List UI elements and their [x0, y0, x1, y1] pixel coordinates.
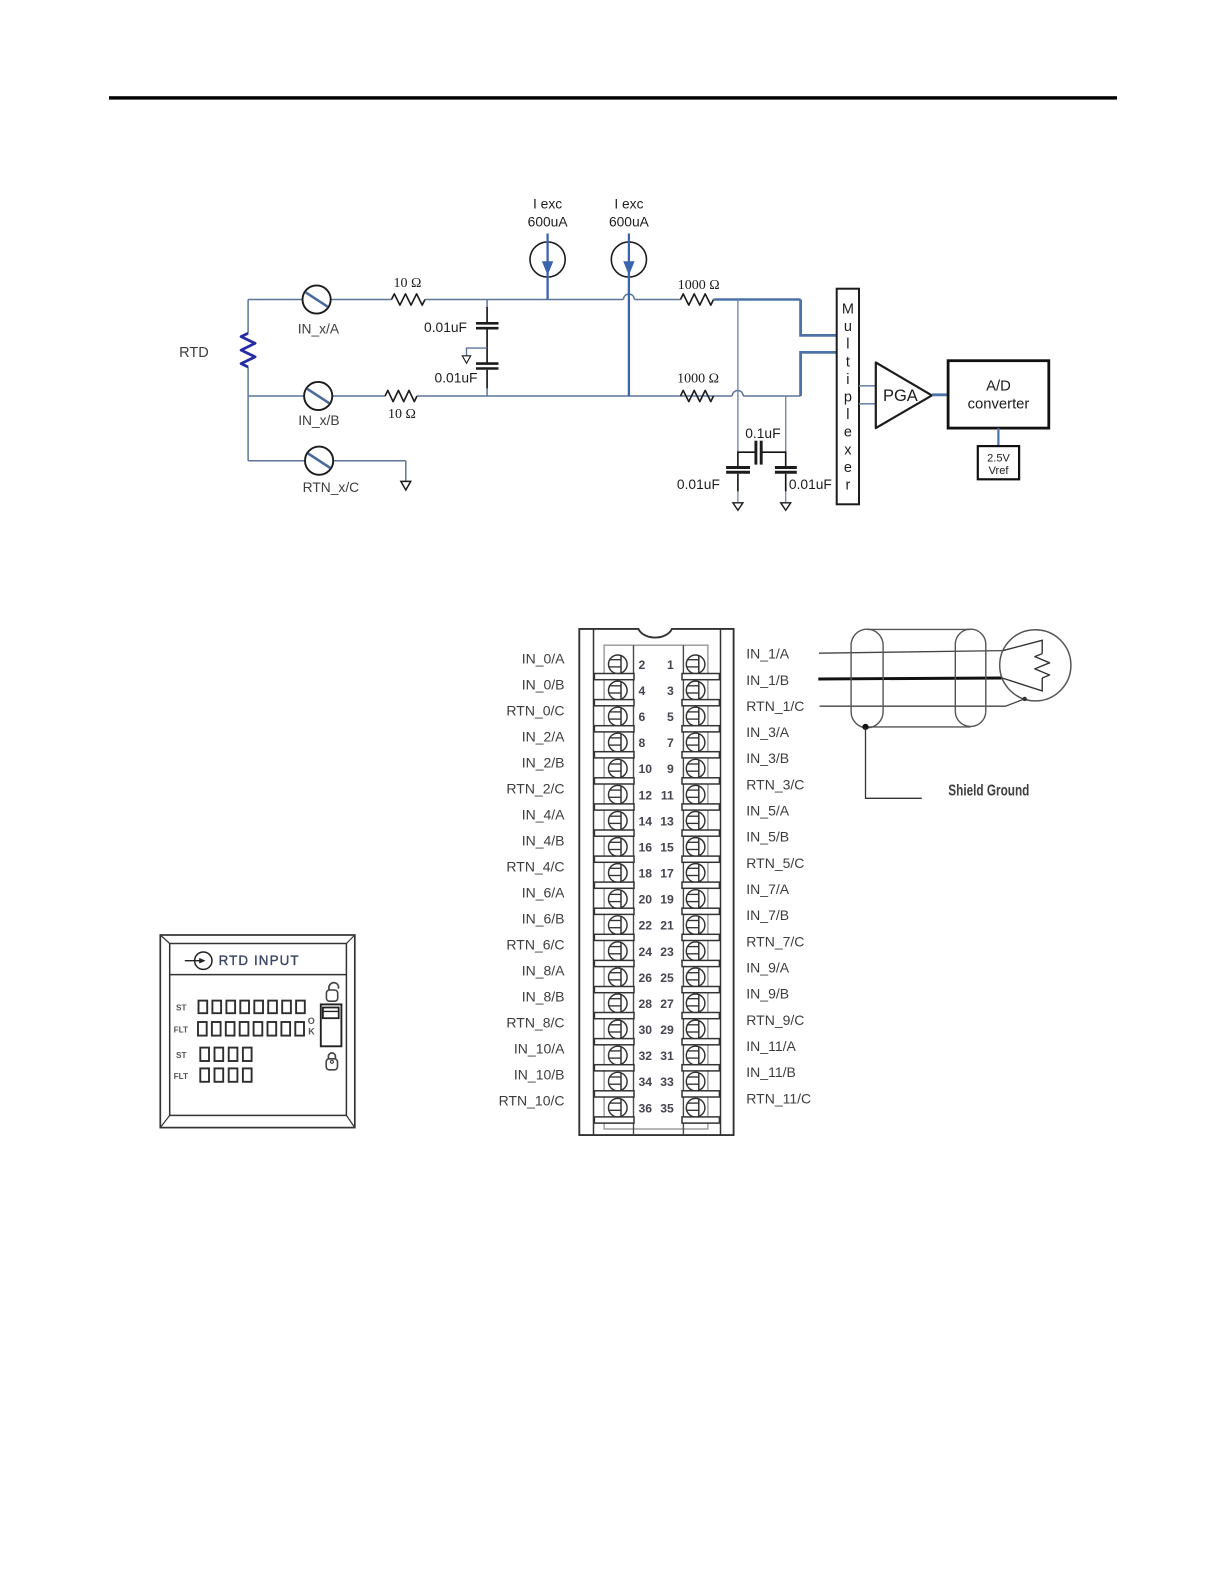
svg-text:29: 29 [660, 1023, 674, 1037]
svg-text:RTN_10/C: RTN_10/C [499, 1093, 565, 1109]
pin number 10 [639, 762, 653, 776]
svg-text:IN_1/B: IN_1/B [746, 672, 789, 688]
svg-text:Shield Ground: Shield Ground [948, 782, 1029, 799]
label ST (row 3) [176, 1051, 186, 1060]
svg-text:RTN_7/C: RTN_7/C [746, 933, 804, 949]
svg-text:ST: ST [176, 1003, 186, 1012]
svg-text:10 Ω: 10 Ω [393, 276, 421, 291]
svg-text:I exc: I exc [533, 197, 562, 212]
svg-text:25: 25 [660, 971, 674, 985]
module key icon [185, 952, 212, 969]
svg-text:IN_6/B: IN_6/B [522, 911, 565, 927]
LED row FLT (channels 0-7) [198, 1022, 304, 1036]
terminal pin 5 [686, 707, 705, 726]
separator bars row 8 [594, 856, 719, 862]
svg-text:IN_2/B: IN_2/B [522, 755, 565, 771]
svg-text:IN_9/B: IN_9/B [746, 986, 789, 1002]
svg-text:0.01uF: 0.01uF [424, 320, 467, 335]
svg-text:3: 3 [667, 684, 674, 698]
ground (left filter cap) [733, 503, 743, 511]
label RTN_6/C [506, 937, 564, 953]
label 0.01uF (lower) [435, 371, 478, 386]
LED row ST (channels 8-11) [200, 1048, 251, 1061]
svg-text:IN_6/A: IN_6/A [522, 885, 565, 901]
module panel outer frame [160, 935, 354, 1128]
terminal pin 25 [686, 968, 705, 987]
wire: top channel into multiplexer [801, 300, 837, 336]
label 0.01uF (right of mux) [789, 477, 832, 492]
label IN_x/B [298, 413, 339, 428]
svg-text:IN_7/A: IN_7/A [746, 881, 789, 897]
svg-text:10: 10 [639, 762, 653, 776]
label IN_x/A [298, 321, 340, 336]
svg-text:RTD: RTD [179, 345, 209, 361]
pin number 22 [639, 919, 653, 933]
terminal pin 30 [609, 1020, 628, 1039]
LED row ST (channels 0-7) [199, 1001, 305, 1014]
svg-text:RTN_1/C: RTN_1/C [746, 698, 804, 714]
svg-text:26: 26 [639, 971, 653, 985]
label I exc 600uA #2 [609, 197, 650, 230]
label IN_6/A [522, 885, 565, 901]
terminal pin 31 [686, 1046, 705, 1065]
pin number 12 [639, 788, 653, 802]
terminal pin 22 [609, 916, 628, 935]
label RTN_10/C [499, 1093, 565, 1109]
pin number 16 [639, 841, 653, 855]
wire IN_1/B (bold) [818, 678, 1002, 679]
svg-text:I exc: I exc [614, 197, 643, 212]
wire: IN_x/B row [248, 391, 801, 397]
svg-text:5: 5 [667, 710, 674, 724]
svg-text:IN_7/B: IN_7/B [746, 907, 789, 923]
svg-text:FLT: FLT [174, 1072, 188, 1081]
separator bars row 6 [594, 804, 719, 810]
svg-text:17: 17 [660, 867, 674, 881]
separator bars row 17 [594, 1091, 719, 1097]
svg-text:RTD INPUT: RTD INPUT [219, 953, 300, 968]
pin number 5 [667, 710, 674, 724]
label RTN_0/C [506, 703, 564, 719]
terminal pin 11 [686, 785, 705, 804]
pin number 13 [660, 814, 674, 828]
svg-text:p: p [844, 390, 852, 406]
wire: mux to PGA (lower) [859, 403, 876, 405]
pin number 2 [639, 658, 646, 672]
current source I exc 600uA #2 [611, 234, 646, 397]
separator bars row 3 [594, 726, 719, 732]
label 1000 ohm (bottom) [677, 372, 719, 387]
wire: filter tap vertical (from IN_x/A) [737, 300, 755, 467]
label RTN_1/C [746, 698, 804, 714]
op-amp PGA [876, 363, 932, 429]
svg-text:IN_9/A: IN_9/A [746, 960, 789, 976]
separator bars row 10 [594, 908, 719, 914]
terminal pin 2 [609, 655, 628, 674]
svg-text:O: O [308, 1016, 315, 1026]
terminal pin 32 [609, 1046, 628, 1065]
svg-text:IN_0/B: IN_0/B [522, 677, 565, 693]
svg-text:IN_3/B: IN_3/B [746, 750, 789, 766]
label Shield Ground [948, 782, 1029, 799]
terminal IN_x/B [304, 382, 332, 410]
label IN_4/A [522, 807, 565, 823]
label FLT (row 2) [174, 1025, 188, 1034]
label IN_4/B [522, 833, 565, 849]
terminal pin 10 [609, 759, 628, 778]
pin number 29 [660, 1023, 674, 1037]
label IN_10/A [514, 1041, 565, 1057]
label 10 ohm (top) [393, 276, 421, 291]
pin number 26 [639, 971, 653, 985]
padlock open (top) [326, 983, 338, 1001]
ground (right filter cap) [781, 503, 791, 511]
svg-text:RTN_0/C: RTN_0/C [506, 703, 564, 719]
svg-text:27: 27 [660, 997, 674, 1011]
separator bars row 16 [594, 1065, 719, 1071]
separator bars row 2 [594, 700, 719, 706]
mode switch [321, 1004, 342, 1046]
terminal pin 8 [609, 733, 628, 752]
svg-text:IN_x/B: IN_x/B [298, 413, 339, 428]
pin number 6 [639, 710, 646, 724]
label RTN_7/C [746, 933, 804, 949]
label I exc 600uA #1 [528, 197, 569, 230]
2.5V Vref [978, 446, 1019, 479]
separator bars row 7 [594, 830, 719, 836]
terminal pin 7 [686, 733, 705, 752]
svg-text:18: 18 [639, 867, 653, 881]
svg-text:600uA: 600uA [609, 215, 650, 230]
separator bars row 14 [594, 1013, 719, 1019]
label IN_7/B [746, 907, 789, 923]
svg-text:23: 23 [660, 945, 674, 959]
svg-text:19: 19 [660, 893, 674, 907]
wire: left vertical bus [247, 300, 249, 461]
pin number 17 [660, 867, 674, 881]
ground (RTN row) [401, 481, 411, 490]
pin number 19 [660, 893, 674, 907]
label IN_10/B [514, 1067, 565, 1083]
svg-text:9: 9 [667, 762, 674, 776]
svg-text:24: 24 [639, 945, 653, 959]
pin number 14 [639, 814, 653, 828]
pin number 20 [639, 893, 653, 907]
resistor 1000 ohm (top) [681, 294, 714, 305]
terminal pin 3 [686, 681, 705, 700]
terminal RTN_x/C [305, 447, 333, 475]
svg-text:IN_x/A: IN_x/A [298, 321, 340, 336]
multiplexer U1 [837, 289, 859, 505]
capacitor 0.1uF [756, 441, 761, 465]
wire IN_1/A [819, 651, 1003, 654]
svg-text:RTN_9/C: RTN_9/C [746, 1012, 804, 1028]
label RTD [179, 345, 209, 361]
svg-text:t: t [846, 354, 850, 370]
resistor RTD [241, 333, 255, 367]
wire: IN_x/A row [248, 294, 680, 300]
svg-text:IN_11/B: IN_11/B [746, 1064, 796, 1080]
label RTN_2/C [506, 781, 564, 797]
label RTN_5/C [746, 855, 804, 871]
separator bars row 1 [594, 674, 719, 680]
label IN_3/A [746, 724, 789, 740]
svg-text:IN_3/A: IN_3/A [746, 724, 789, 740]
svg-text:IN_10/B: IN_10/B [514, 1067, 565, 1083]
separator bars row 13 [594, 987, 719, 993]
pin number 36 [639, 1101, 653, 1115]
label IN_1/A [746, 646, 789, 662]
label IN_0/A [522, 651, 565, 667]
current source I exc 600uA #1 [530, 234, 565, 300]
pin number 4 [639, 684, 646, 698]
svg-text:RTN_4/C: RTN_4/C [506, 859, 564, 875]
terminal pin 19 [686, 890, 705, 909]
label IN_3/B [746, 750, 789, 766]
svg-text:0.1uF: 0.1uF [745, 426, 780, 441]
terminal pin 12 [609, 785, 628, 804]
padlock closed (bottom) [326, 1053, 337, 1070]
pin number 11 [661, 788, 674, 802]
pin number 24 [639, 945, 653, 959]
label RTD INPUT [219, 953, 300, 968]
svg-text:RTN_5/C: RTN_5/C [746, 855, 804, 871]
terminal pin 23 [686, 942, 705, 961]
svg-text:10 Ω: 10 Ω [388, 407, 416, 422]
svg-text:600uA: 600uA [528, 215, 569, 230]
pin number 35 [660, 1101, 674, 1115]
terminal block outline [579, 629, 733, 1135]
svg-text:l: l [846, 337, 849, 353]
cable shield bottom link [866, 726, 971, 728]
svg-text:31: 31 [660, 1049, 674, 1063]
label IN_11/A [746, 1038, 796, 1054]
svg-text:FLT: FLT [174, 1025, 188, 1034]
terminal pin 14 [609, 812, 628, 831]
label IN_6/B [522, 911, 565, 927]
svg-text:RTN_11/C: RTN_11/C [746, 1090, 811, 1106]
terminal pin 36 [609, 1098, 628, 1117]
label IN_5/B [746, 829, 789, 845]
svg-text:A/D: A/D [986, 379, 1011, 395]
svg-text:32: 32 [639, 1049, 653, 1063]
label IN_5/A [746, 803, 789, 819]
pin number 25 [660, 971, 674, 985]
terminal pin 33 [686, 1072, 705, 1091]
label IN_2/A [522, 729, 565, 745]
wire: RTN_x/C row [248, 461, 406, 482]
svg-text:IN_8/A: IN_8/A [522, 963, 565, 979]
pin number 3 [667, 684, 674, 698]
label RTN_x/C [303, 480, 360, 495]
pin number 15 [660, 841, 674, 855]
svg-text:K: K [308, 1027, 315, 1037]
terminal pin 35 [686, 1098, 705, 1117]
header rule [109, 96, 1117, 99]
pin number 9 [667, 762, 674, 776]
pin number 34 [639, 1075, 653, 1089]
svg-text:0.01uF: 0.01uF [677, 477, 720, 492]
label 10 ohm (bottom) [388, 407, 416, 422]
A/D converter [948, 361, 1049, 428]
cable shield loop (right) [955, 629, 986, 726]
pin number 7 [667, 736, 674, 750]
svg-text:36: 36 [639, 1101, 653, 1115]
label IN_7/A [746, 881, 789, 897]
svg-text:1000 Ω: 1000 Ω [677, 372, 719, 387]
terminal block inner frame [604, 645, 708, 1135]
svg-text:i: i [846, 372, 849, 388]
terminal pin 13 [686, 812, 705, 831]
svg-text:34: 34 [639, 1075, 653, 1089]
terminal pin 20 [609, 890, 628, 909]
terminal pin 24 [609, 942, 628, 961]
resistor 1000 ohm (bottom) [681, 390, 714, 401]
pin number 33 [660, 1075, 674, 1089]
terminal pin 18 [609, 864, 628, 883]
svg-text:15: 15 [660, 841, 674, 855]
terminal pin 4 [609, 681, 628, 700]
separator bars row 18 [594, 1117, 719, 1123]
wire: mux to PGA (upper) [859, 385, 876, 387]
svg-text:22: 22 [639, 919, 653, 933]
wire: 1000 ohm to corner (thick) [714, 298, 801, 300]
label IN_8/A [522, 963, 565, 979]
svg-text:16: 16 [639, 841, 653, 855]
svg-text:IN_10/A: IN_10/A [514, 1041, 565, 1057]
module panel inner frame [160, 935, 354, 1128]
svg-text:IN_4/A: IN_4/A [522, 807, 565, 823]
svg-text:e: e [844, 460, 852, 476]
svg-text:RTN_3/C: RTN_3/C [746, 776, 804, 792]
svg-text:IN_0/A: IN_0/A [522, 651, 565, 667]
wire: PGA to A/D [932, 393, 948, 396]
label RTN_9/C [746, 1012, 804, 1028]
svg-text:28: 28 [639, 997, 653, 1011]
svg-text:IN_5/B: IN_5/B [746, 829, 789, 845]
wire: bottom channel into multiplexer [801, 352, 837, 396]
label OK [308, 1016, 315, 1037]
separator bars row 5 [594, 778, 719, 784]
pin number 30 [639, 1023, 653, 1037]
label RTN_11/C [746, 1090, 811, 1106]
svg-text:RTN_2/C: RTN_2/C [506, 781, 564, 797]
label IN_0/B [522, 677, 565, 693]
capacitor 0.01uF (upper, at IN_x/A filter) [476, 300, 499, 363]
svg-text:1000 Ω: 1000 Ω [678, 278, 720, 293]
svg-text:r: r [845, 478, 850, 494]
svg-text:IN_11/A: IN_11/A [746, 1038, 796, 1054]
separator bars row 15 [594, 1039, 719, 1045]
label IN_11/B [746, 1064, 796, 1080]
node: shield ground junction [862, 724, 868, 730]
svg-text:35: 35 [660, 1101, 674, 1115]
svg-text:x: x [844, 442, 852, 458]
LED row FLT (channels 8-11) [200, 1068, 251, 1081]
svg-text:7: 7 [667, 736, 674, 750]
terminal block inner walls [594, 629, 721, 1135]
label RTN_3/C [746, 776, 804, 792]
label IN_9/A [746, 960, 789, 976]
svg-text:20: 20 [639, 893, 653, 907]
label 1000 ohm (top) [678, 278, 720, 293]
svg-text:ST: ST [176, 1051, 186, 1060]
pin number 1 [667, 658, 674, 672]
wire: filter tap vertical (from IN_x/B) [762, 396, 787, 466]
label 0.1uF [745, 426, 780, 441]
label IN_1/B [746, 672, 789, 688]
label IN_9/B [746, 986, 789, 1002]
label FLT (row 4) [174, 1072, 188, 1081]
label IN_2/B [522, 755, 565, 771]
label 0.01uF (upper) [424, 320, 467, 335]
svg-text:RTN_x/C: RTN_x/C [303, 480, 360, 495]
separator bars row 9 [594, 882, 719, 888]
svg-text:12: 12 [639, 788, 653, 802]
terminal pin 29 [686, 1020, 705, 1039]
terminal pin 6 [609, 707, 628, 726]
svg-text:IN_5/A: IN_5/A [746, 803, 789, 819]
separator bars row 12 [594, 960, 719, 966]
svg-text:u: u [844, 319, 852, 335]
label IN_8/B [522, 989, 565, 1005]
label RTN_8/C [506, 1015, 564, 1031]
terminal pin 15 [686, 838, 705, 857]
cable shield top link [867, 628, 971, 630]
svg-text:IN_8/B: IN_8/B [522, 989, 565, 1005]
svg-text:RTN_8/C: RTN_8/C [506, 1015, 564, 1031]
svg-text:21: 21 [660, 919, 674, 933]
svg-text:4: 4 [639, 684, 646, 698]
terminal pin 9 [686, 759, 705, 778]
svg-text:PGA: PGA [883, 387, 918, 405]
svg-text:30: 30 [639, 1023, 653, 1037]
terminal IN_x/A [303, 285, 331, 313]
svg-text:Vref: Vref [989, 465, 1010, 477]
terminal pin 26 [609, 968, 628, 987]
svg-text:13: 13 [660, 814, 674, 828]
svg-text:33: 33 [660, 1075, 674, 1089]
RTD sensor [1000, 630, 1071, 701]
svg-text:IN_4/B: IN_4/B [522, 833, 565, 849]
svg-text:IN_2/A: IN_2/A [522, 729, 565, 745]
terminal pin 27 [686, 994, 705, 1013]
terminal pin 16 [609, 838, 628, 857]
svg-text:l: l [846, 407, 849, 423]
capacitor 0.01uF (left of mux) [726, 468, 750, 503]
cable shield loop (left) [851, 629, 883, 728]
pin number 21 [660, 919, 674, 933]
resistor 10 ohm (bottom) [385, 390, 417, 401]
svg-text:2: 2 [639, 658, 646, 672]
svg-text:converter: converter [968, 397, 1030, 413]
module title separator [170, 974, 347, 976]
pin number 23 [660, 945, 674, 959]
svg-text:M: M [842, 302, 854, 318]
pin number 31 [660, 1049, 674, 1063]
svg-text:14: 14 [639, 814, 653, 828]
svg-text:0.01uF: 0.01uF [789, 477, 832, 492]
capacitor 0.01uF (right of mux) [775, 468, 797, 503]
pin number 28 [639, 997, 653, 1011]
separator bars row 4 [594, 752, 719, 758]
wire RTN_1/C [820, 699, 1025, 706]
svg-text:0.01uF: 0.01uF [435, 371, 478, 386]
terminal pin 28 [609, 994, 628, 1013]
terminal pin 21 [686, 916, 705, 935]
separator bars row 11 [594, 934, 719, 940]
svg-text:6: 6 [639, 710, 646, 724]
